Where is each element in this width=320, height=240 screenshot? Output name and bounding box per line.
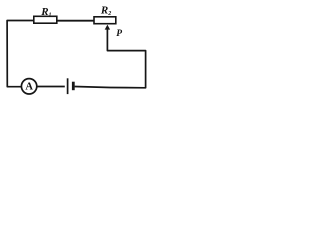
svg-text:R1: R1 [40,6,51,18]
wiper arrowhead P [105,25,110,30]
svg-text:P: P [116,29,122,39]
wire ammeter to battery [38,86,65,88]
resistor R1 [34,16,57,23]
battery long plate (+) [67,78,69,94]
wiper arrow shaft and wire to right side, down, bottom to battery [75,29,146,88]
svg-text:R2: R2 [100,5,111,17]
battery short plate (-) [72,82,75,91]
wire left loop (top-left, left side, bottom-left) [7,21,33,87]
wire R1 to R2 [57,20,95,22]
ammeter A [21,79,36,94]
svg-text:A: A [25,82,33,93]
resistor R2 (rheostat track) [94,17,116,24]
